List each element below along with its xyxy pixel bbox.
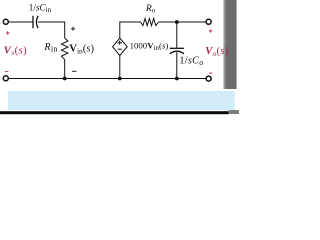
minus black Vin [72, 70, 76, 72]
svg-text:Vin(s): Vin(s) [69, 44, 94, 56]
capacitor 1/sCo [170, 22, 184, 79]
wire Ro to output terminal [159, 21, 206, 23]
wire capacitor to corner and down to Rin [38, 22, 65, 38]
svg-text:Rin: Rin [43, 42, 57, 54]
terminals (open circles) [3, 19, 211, 81]
wire top-left (terminal to capacitor) [8, 21, 32, 23]
bottom rule (black) [0, 111, 229, 114]
node source/rail [118, 77, 122, 81]
plus black Vin [71, 27, 75, 31]
svg-text:Ro: Ro [145, 3, 156, 15]
svg-text:Vo(s): Vo(s) [205, 46, 228, 58]
highlighted row (light blue) [8, 91, 235, 110]
svg-text:1000Vin(s): 1000Vin(s) [130, 41, 169, 53]
node Rin/rail [63, 77, 67, 81]
terminal bottom-left [3, 76, 8, 81]
minus red bottom-left [5, 71, 8, 73]
minus red bottom-right [209, 72, 213, 74]
node Co/top [175, 20, 179, 24]
dependent source diamond U1 [113, 38, 128, 56]
plus red top-right [209, 29, 213, 33]
wire Rin to bottom rail [64, 60, 66, 79]
plus red top-left [6, 31, 10, 35]
node Co/rail [175, 77, 179, 81]
terminal top-right [206, 19, 211, 24]
resistor Ro [141, 19, 159, 26]
bottom rail wire [8, 78, 206, 80]
wire riser dependent source to top [120, 22, 141, 38]
junction node dots [63, 20, 179, 80]
resistor Rin [61, 38, 68, 60]
plus inside source [118, 41, 122, 45]
capacitor 1/sCin [33, 16, 38, 28]
terminal top-left [3, 19, 8, 24]
bottom rule gray end [229, 110, 240, 114]
wire dependent source to bottom rail [119, 56, 121, 79]
svg-text:1/sCin: 1/sCin [29, 2, 52, 14]
svg-text:1/sCo: 1/sCo [179, 55, 203, 67]
terminal bottom-right [206, 76, 211, 81]
minus inside source [118, 48, 122, 50]
svg-text:Vs(s): Vs(s) [4, 45, 27, 57]
